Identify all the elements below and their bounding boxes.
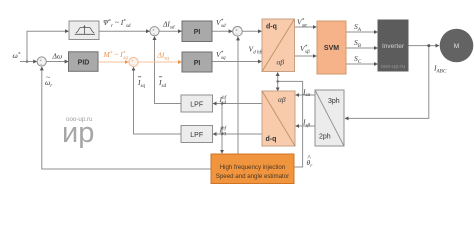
wire hf currents down to estimator: [221, 104, 223, 154]
wire IABC measurement: [345, 46, 429, 119]
wire dq to SVM Vsa: [295, 26, 317, 28]
wire dq to SVM Vsb: [295, 55, 317, 57]
block inverter: [378, 20, 408, 71]
motor M: [440, 29, 474, 63]
block PID: [69, 52, 99, 72]
block PI1: [182, 21, 212, 42]
summing junction sum2 flux: [150, 27, 159, 36]
wire sum3 to PI2 (orange): [138, 61, 181, 63]
wire LPF1 out to sum2: [155, 37, 182, 104]
svg-text:~: ~: [46, 73, 50, 82]
wire flux block to sum2: [99, 30, 149, 32]
wire 3ph2ph to abdq Isb: [296, 125, 315, 127]
node IABC tap: [427, 44, 430, 47]
svg-text:ир: ир: [62, 117, 94, 149]
block alphabeta to dq: [262, 91, 295, 146]
block 3ph 2ph: [315, 90, 344, 146]
wire PI1 to sum4: [212, 30, 232, 32]
wire Vdhfi injection up to sum4: [237, 37, 239, 154]
svg-text:PI: PI: [194, 60, 201, 67]
svg-text:High frequency injection: High frequency injection: [220, 164, 286, 171]
node branch omega*: [26, 60, 29, 63]
block flux reference (saturation curve): [69, 21, 99, 40]
svg-text:ooo-up.ru: ooo-up.ru: [381, 64, 406, 70]
wire LPF2 out to sum3: [134, 67, 182, 134]
svg-text:SVM: SVM: [324, 45, 339, 52]
svg-text:Inverter: Inverter: [382, 43, 405, 50]
svg-text:Speed and angle estimator: Speed and angle estimator: [216, 173, 289, 180]
svg-text:d-q: d-q: [266, 136, 277, 143]
block dq to alphabeta: [262, 19, 295, 72]
svg-text:PID: PID: [78, 60, 90, 67]
summing junction sum3 torque (orange): [129, 57, 138, 66]
wire omega* input: [20, 61, 37, 63]
svg-text:αβ: αβ: [277, 57, 285, 66]
summing junction sum1 speed: [37, 57, 46, 66]
wire sum4 to dq block: [242, 30, 261, 32]
block SVM: [317, 21, 346, 74]
svg-text:PI: PI: [194, 29, 201, 36]
wire sum1 to PID: [46, 61, 68, 63]
svg-text:M: M: [454, 43, 459, 50]
block PI2: [182, 52, 212, 72]
wire abdq to LPF1 Isd: [213, 103, 262, 105]
wire abdq to LPF2 Isq: [213, 133, 262, 135]
wire inverter to motor: [408, 45, 439, 47]
wire theta to abdq block: [277, 81, 279, 90]
svg-text:LPF: LPF: [190, 101, 203, 108]
wire branch to flux block: [27, 31, 68, 61]
svg-text:3ph: 3ph: [328, 98, 340, 105]
wire SVM to inverter SC: [346, 63, 377, 65]
block LPF1: [181, 95, 213, 112]
node hf tap sq: [221, 133, 224, 136]
block HFI estimator: [211, 154, 294, 184]
wire SVM to inverter SA: [346, 31, 377, 33]
summing junction sum4 voltage: [233, 27, 243, 37]
wire omega_r feedback to sum1: [42, 67, 211, 169]
svg-text:LPF: LPF: [190, 132, 203, 139]
svg-text:Δω: Δω: [52, 52, 63, 61]
node theta split: [276, 80, 279, 83]
block LPF2: [181, 126, 213, 143]
wire theta to dq block: [277, 73, 279, 82]
wire PI2 to dq block Vsq: [212, 61, 261, 63]
wire SVM to inverter SB: [346, 47, 377, 49]
svg-text:2ph: 2ph: [319, 134, 331, 141]
wire theta_r from estimator: [278, 81, 302, 167]
svg-text:d-q: d-q: [266, 24, 277, 31]
node hf tap sd: [221, 102, 224, 105]
svg-text:αβ: αβ: [278, 95, 286, 104]
wire 3ph2ph to abdq Isa: [296, 94, 315, 96]
wire PID to sum3 (orange): [98, 61, 128, 63]
wire sum2 to PI1: [159, 30, 181, 32]
